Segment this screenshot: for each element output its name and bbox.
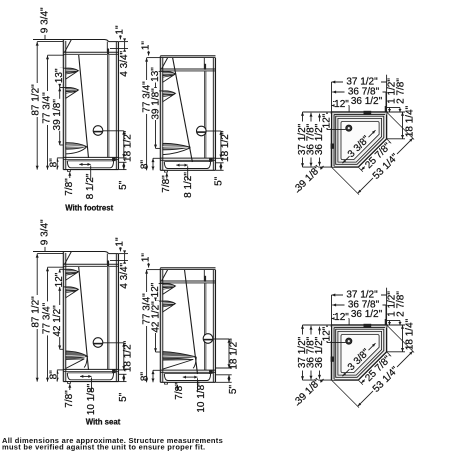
D4 dim 4 3/4 bbox=[119, 253, 128, 255]
svg-text:2 7/8": 2 7/8" bbox=[395, 291, 406, 317]
svg-text:13": 13" bbox=[54, 68, 65, 83]
D1 dim 13 bbox=[59, 68, 61, 87]
svg-text:1": 1" bbox=[141, 253, 152, 263]
D6 dim 18 1/4 bbox=[387, 324, 405, 326]
svg-text:2 7/8": 2 7/8" bbox=[395, 78, 406, 104]
D5 dim 12 bbox=[155, 284, 157, 302]
D4 dim 18 1/2 bbox=[103, 342, 124, 344]
D3 drain bbox=[346, 125, 352, 131]
D5 valve control bbox=[203, 334, 213, 344]
D2 base bbox=[160, 157, 215, 159]
svg-text:87 1/2": 87 1/2" bbox=[30, 296, 41, 328]
D6 dim 37 1/2 top bbox=[332, 294, 387, 296]
D1 dim 7/8 bbox=[69, 172, 71, 178]
svg-text:With footrest: With footrest bbox=[65, 204, 113, 213]
svg-text:5": 5" bbox=[228, 385, 239, 395]
svg-text:8 1/2": 8 1/2" bbox=[85, 173, 96, 199]
D2 dim 77 3/4 bbox=[146, 58, 148, 171]
D3 dim 36 7/8 left bbox=[310, 113, 312, 167]
D1 valve control bbox=[93, 126, 103, 136]
svg-text:36 1/2": 36 1/2" bbox=[351, 309, 383, 320]
svg-text:1": 1" bbox=[115, 237, 126, 247]
D2 dim 13 bbox=[155, 71, 157, 91]
D2 dim 1 left top bbox=[148, 51, 150, 56]
D6 dim 12 left bbox=[326, 325, 328, 343]
D1 dim 18 1/2 bbox=[103, 130, 124, 132]
D4 seat bbox=[66, 351, 88, 358]
svg-text:18 1/2": 18 1/2" bbox=[229, 338, 240, 370]
D6 dim 37 1/2 left bbox=[302, 325, 304, 380]
svg-text:10 1/8": 10 1/8" bbox=[86, 383, 97, 415]
D1 top cap bbox=[71, 39, 104, 41]
D1 dim 87 1/2 bbox=[36, 42, 38, 170]
D6 dim 36 1/2 left bbox=[319, 327, 321, 379]
D5 dim 1 left top bbox=[148, 263, 150, 268]
D2 valve control bbox=[197, 126, 207, 136]
svg-text:7/8": 7/8" bbox=[64, 390, 75, 408]
D4 base bbox=[63, 368, 118, 370]
svg-text:77 3/4": 77 3/4" bbox=[41, 92, 52, 124]
svg-text:9 3/4": 9 3/4" bbox=[39, 7, 50, 33]
D1 base bbox=[63, 156, 118, 158]
D2 dim 8 1/2 bbox=[176, 164, 187, 166]
D4 valve control bbox=[93, 338, 103, 348]
svg-text:8": 8" bbox=[139, 372, 150, 382]
D3 dim 2 7/8 bbox=[399, 108, 401, 113]
svg-text:18 1/2": 18 1/2" bbox=[122, 340, 133, 372]
D2 inner door panel edge bbox=[203, 71, 205, 158]
svg-text:4 3/4": 4 3/4" bbox=[119, 262, 130, 288]
D3 dim 36 7/8 top bbox=[332, 91, 386, 93]
D6 dim 36 7/8 top bbox=[332, 304, 386, 306]
svg-text:18 1/4": 18 1/4" bbox=[404, 318, 415, 350]
D2 footrest bbox=[163, 143, 191, 149]
D5 dim 10 1/8 bbox=[183, 376, 198, 378]
D5 shelf bbox=[163, 283, 176, 287]
D1 inner door panel edge bbox=[106, 55, 108, 157]
D1 dim 1 right top bbox=[119, 35, 121, 39]
D4 dim 1 right top bbox=[119, 247, 121, 251]
D4 dim 10 1/8 bbox=[80, 375, 91, 377]
D1 body walls bbox=[63, 41, 66, 170]
svg-text:36 1/2": 36 1/2" bbox=[351, 96, 383, 107]
D1 dim 9 3/4 top bbox=[33, 39, 71, 41]
svg-text:8 1/2": 8 1/2" bbox=[183, 172, 194, 198]
svg-text:7/8": 7/8" bbox=[174, 382, 185, 400]
D6 rim bbox=[336, 329, 384, 377]
D3 dim 12 top bbox=[332, 105, 350, 107]
D4 shelf bbox=[66, 269, 79, 273]
D6 dim 12 top bbox=[332, 318, 350, 320]
D6 dim 36 1/2 top bbox=[333, 314, 385, 316]
svg-text:18 1/2": 18 1/2" bbox=[122, 130, 133, 162]
D1 dim 5 bbox=[119, 161, 127, 163]
D3 dim 12 left bbox=[326, 112, 328, 130]
D3 dim 3 3/8 diagonal bbox=[343, 156, 350, 163]
D3 rim bbox=[336, 116, 384, 164]
svg-text:8": 8" bbox=[48, 158, 59, 168]
svg-text:18 1/4": 18 1/4" bbox=[404, 105, 415, 137]
D4 door diagonal bbox=[79, 267, 89, 370]
svg-text:must be verified against the u: must be verified against the unit to ens… bbox=[2, 442, 205, 451]
D4 dim 77 3/4 bbox=[47, 267, 49, 381]
D5 base bbox=[160, 369, 215, 371]
D6 shower pan outline bbox=[332, 325, 387, 380]
D4 dim 7/8 bbox=[69, 384, 71, 390]
svg-text:10 1/8": 10 1/8" bbox=[196, 381, 207, 413]
D3 left wall valve bbox=[331, 144, 334, 149]
svg-text:7/8": 7/8" bbox=[161, 175, 172, 193]
D4 dim 42 1/2 bbox=[59, 287, 61, 349]
svg-text:77 3/4": 77 3/4" bbox=[141, 293, 152, 325]
D6 dim 36 7/8 left bbox=[310, 326, 312, 380]
D6 walls bbox=[332, 325, 387, 328]
D6 dim 2 7/8 bbox=[399, 321, 401, 326]
svg-text:1": 1" bbox=[115, 25, 126, 35]
D3 top wall valve bbox=[364, 111, 372, 115]
D3 basin floor bbox=[341, 122, 379, 160]
D4 dim 8 bbox=[56, 370, 58, 382]
svg-text:42 1/2": 42 1/2" bbox=[52, 305, 63, 337]
svg-text:12": 12" bbox=[322, 113, 333, 128]
svg-text:18 1/2": 18 1/2" bbox=[220, 130, 231, 162]
svg-text:4 3/4": 4 3/4" bbox=[119, 50, 130, 76]
D2 dim 7/8 bbox=[166, 173, 168, 179]
svg-text:With seat: With seat bbox=[86, 417, 121, 426]
D6 dim 3 3/8 diagonal bbox=[343, 369, 350, 376]
D3 dim 53 1/4 diagonal bbox=[332, 168, 359, 195]
svg-text:5": 5" bbox=[118, 392, 129, 402]
D5 dim 77 3/4 bbox=[146, 270, 148, 383]
D2 dim 39 1/8 bbox=[155, 91, 157, 148]
D4 dim 87 1/2 bbox=[36, 254, 38, 382]
D4 body walls bbox=[63, 253, 66, 382]
D1 footrest bbox=[66, 143, 87, 149]
D6 dim 53 1/4 diagonal bbox=[332, 381, 359, 408]
D6 dim 25 7/8 diagonal bbox=[359, 381, 363, 385]
svg-text:7/8": 7/8" bbox=[64, 178, 75, 196]
D3 dim 39 1/8 diagonal bbox=[297, 166, 324, 193]
D2 dim 8 bbox=[152, 158, 154, 170]
D5 dim 18 1/2 bbox=[213, 338, 229, 340]
D4 inner door panel edge bbox=[106, 267, 108, 369]
D3 shower pan outline bbox=[332, 112, 387, 167]
D3 dim 36 1/2 top bbox=[333, 101, 385, 103]
svg-text:8": 8" bbox=[139, 160, 150, 170]
D5 inner door panel edge bbox=[203, 283, 205, 370]
D2 dim 5 bbox=[216, 162, 224, 164]
D5 dim 5 bbox=[216, 374, 232, 376]
D5 dim 7/8 bbox=[177, 385, 179, 391]
D4 top cap bbox=[71, 251, 104, 253]
D3 dim 36 1/2 left bbox=[319, 114, 321, 166]
D2 body walls bbox=[160, 57, 163, 171]
svg-text:12": 12" bbox=[322, 326, 333, 341]
D3 dim 37 1/2 top bbox=[332, 81, 387, 83]
D1 door diagonal bbox=[79, 55, 89, 158]
D1 dim 77 3/4 bbox=[47, 55, 49, 169]
svg-text:1": 1" bbox=[141, 41, 152, 51]
svg-text:5": 5" bbox=[118, 180, 129, 190]
D1 shelf bbox=[66, 68, 79, 72]
svg-text:77 3/4": 77 3/4" bbox=[41, 302, 52, 334]
D6 basin floor bbox=[341, 335, 379, 373]
D6 dim 39 1/8 diagonal bbox=[297, 379, 324, 406]
D4 dim 9 3/4 top bbox=[33, 251, 71, 253]
svg-text:39 1/8": 39 1/8" bbox=[52, 99, 63, 131]
D2 shelf bbox=[163, 91, 176, 95]
D2 door diagonal bbox=[173, 58, 193, 162]
D6 drain bbox=[346, 338, 352, 344]
D4 dim 5 bbox=[119, 373, 127, 375]
D3 dim 25 7/8 diagonal bbox=[359, 168, 363, 172]
D6 top wall valve bbox=[364, 324, 372, 328]
D5 body walls bbox=[160, 269, 163, 383]
D4 dim 12 bbox=[59, 269, 61, 287]
D3 dim 1 1/2 bbox=[387, 107, 400, 109]
D1 dim 39 1/8 bbox=[59, 88, 61, 146]
svg-text:12": 12" bbox=[54, 272, 65, 287]
D5 seat bbox=[163, 352, 197, 359]
D1 dim 4 3/4 bbox=[119, 41, 128, 43]
D1 dim 8 1/2 bbox=[79, 163, 90, 165]
D3 dim 18 1/4 bbox=[387, 111, 405, 113]
svg-text:13": 13" bbox=[150, 67, 161, 82]
D2 shelf bbox=[163, 71, 176, 75]
svg-text:87 1/2": 87 1/2" bbox=[30, 84, 41, 116]
D5 shelf bbox=[163, 301, 176, 305]
D5 top cap bbox=[160, 267, 215, 269]
D5 dim 42 1/2 bbox=[155, 301, 157, 352]
svg-text:12": 12" bbox=[334, 312, 349, 323]
D4 shelf bbox=[66, 287, 79, 291]
D5 dim 8 bbox=[152, 370, 154, 382]
D3 walls bbox=[332, 112, 387, 115]
svg-text:5": 5" bbox=[214, 176, 225, 186]
D6 dim 1 1/2 bbox=[387, 320, 400, 322]
svg-text:9 3/4": 9 3/4" bbox=[39, 219, 50, 245]
D2 top cap bbox=[160, 55, 215, 57]
D3 dim 37 1/2 left bbox=[302, 112, 304, 167]
svg-text:8": 8" bbox=[48, 370, 59, 380]
D2 dim 18 1/2 bbox=[206, 130, 221, 132]
D5 door diagonal bbox=[185, 270, 198, 374]
svg-text:77 3/4": 77 3/4" bbox=[141, 81, 152, 113]
svg-text:12": 12" bbox=[334, 99, 349, 110]
D1 dim 8 bbox=[56, 158, 58, 170]
D6 left wall valve bbox=[331, 357, 334, 362]
D1 shelf bbox=[66, 87, 79, 91]
